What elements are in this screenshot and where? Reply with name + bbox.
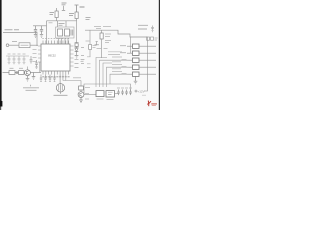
capacitor C3: [65, 29, 70, 36]
bottom pin labels: [42, 76, 69, 78]
sensor section top row caps: [8, 56, 26, 64]
wire: [59, 38, 69, 44]
resistor R9: [147, 37, 150, 40]
component K2: [133, 51, 140, 55]
crystal Y1: [58, 29, 63, 36]
bus wires nested: [96, 58, 129, 88]
transistor Q1: [25, 70, 31, 76]
label R1: [69, 14, 74, 16]
driver chain left: [80, 81, 82, 87]
capacitor C5: [8, 56, 11, 64]
label R2: [50, 13, 55, 15]
label: [12, 41, 17, 43]
connector pin J1: [6, 44, 9, 47]
buzzer LS1: [59, 75, 61, 84]
wire: [115, 93, 119, 95]
diode D6: [129, 90, 132, 96]
ground: [34, 35, 37, 38]
resistor R2: [56, 8, 58, 11]
diode D4: [75, 47, 78, 56]
component box U2: [19, 43, 30, 48]
component K1: [133, 44, 140, 48]
loop wire bottom: [84, 84, 131, 95]
ground: [79, 98, 83, 103]
ground: [40, 35, 43, 38]
capacitor C17: [151, 26, 154, 32]
wire top bus: [47, 20, 77, 22]
capacitor C16: [121, 90, 124, 96]
logo red: [147, 101, 157, 107]
labels above caps: [8, 53, 26, 55]
scan edge bar right: [159, 0, 160, 110]
stub labels: [120, 46, 127, 74]
label +5V: [80, 6, 85, 8]
capacitor C4: [71, 30, 73, 36]
labels: [105, 34, 111, 43]
left pin labels: [33, 50, 37, 62]
labels: [85, 88, 90, 100]
ground under boxes: [134, 76, 138, 84]
wire: [30, 44, 38, 46]
wire main left: [3, 72, 42, 74]
wire: [39, 62, 41, 73]
capacitor C7: [18, 56, 21, 64]
right pin labels: [75, 48, 85, 68]
capacitor C15: [117, 90, 120, 96]
extra flecks right of IC: [75, 44, 122, 69]
component K3: [133, 58, 140, 62]
power flag: [95, 42, 99, 45]
node label TOP: [62, 3, 67, 5]
bus labels: [108, 52, 122, 72]
wire from bottom pins: [63, 75, 66, 81]
svg-text:+12V: +12V: [138, 90, 145, 94]
regulator box2: [106, 91, 115, 97]
resistor R4: [19, 71, 25, 75]
IC U1 body: [41, 44, 70, 71]
resistor R6: [101, 30, 103, 33]
label OSC: [59, 24, 65, 26]
label fleck: [49, 22, 53, 24]
node circle: [16, 72, 18, 74]
resistor R8: [89, 45, 92, 50]
diode D5: [125, 90, 128, 96]
top pin numbers: [42, 38, 69, 40]
wire: [9, 44, 19, 46]
labels top right: [138, 25, 148, 29]
component K5: [133, 72, 140, 76]
capacitor C12: [44, 75, 46, 82]
svg-text:89C52: 89C52: [48, 54, 56, 58]
resistor R1: [75, 12, 78, 19]
resistor R10: [151, 37, 154, 40]
label fleck bottom right: [142, 94, 146, 96]
resistor R5: [79, 86, 84, 90]
ground: [75, 56, 78, 59]
capacitor C1: [34, 26, 37, 34]
wire: [33, 25, 47, 27]
labels under boxes: [97, 98, 114, 100]
label buzzer: [54, 92, 68, 95]
chain near IC right: wire: [76, 21, 78, 43]
component K4: [133, 65, 140, 69]
ground: [26, 76, 30, 81]
top right net wire: [85, 30, 148, 37]
vertical right rail: [144, 37, 148, 91]
IC U1 bottom pins: [43, 71, 69, 75]
labels: [117, 87, 132, 89]
labels above: [94, 27, 111, 29]
caps under IC: [40, 75, 56, 82]
wire: [27, 67, 29, 70]
notes text block: [23, 85, 39, 91]
label VCC2: [86, 18, 91, 20]
wire stub: [62, 6, 65, 11]
left stubs: [127, 46, 133, 74]
wire: [3, 32, 37, 46]
capacitor C11: [40, 75, 42, 82]
ground: [32, 73, 36, 80]
capacitor C2: [40, 26, 43, 34]
resistor R3: [9, 71, 15, 75]
oscillator block Y1: [58, 21, 67, 27]
label net top-left: [5, 29, 20, 31]
resistor R7: [75, 43, 78, 47]
capacitor C8: [23, 56, 26, 64]
capacitor C10: [35, 60, 38, 68]
regulator box1: [96, 91, 104, 97]
IC U1 top pins: [43, 41, 69, 45]
wire: [46, 21, 48, 44]
transistor Q2: [80, 90, 82, 92]
vertical left rail: [130, 37, 132, 53]
IC U1 right pins: [70, 46, 74, 66]
capacitor C14: [53, 75, 55, 82]
label: [81, 60, 85, 62]
scan edge bar left: [0, 0, 2, 101]
label: [86, 41, 97, 48]
label: [73, 77, 81, 79]
capacitor C6: [13, 56, 16, 64]
IC U1 left pins: [38, 46, 41, 62]
wire: [6, 55, 29, 57]
chain 2: [89, 30, 91, 44]
power VCC: [75, 5, 79, 12]
label: [155, 38, 158, 40]
capacitor C9: [30, 56, 33, 64]
capacitor C13: [49, 75, 51, 82]
node +12V: [135, 90, 137, 92]
labels R3 R4: [10, 67, 24, 69]
wires right of boxes: [139, 46, 156, 74]
